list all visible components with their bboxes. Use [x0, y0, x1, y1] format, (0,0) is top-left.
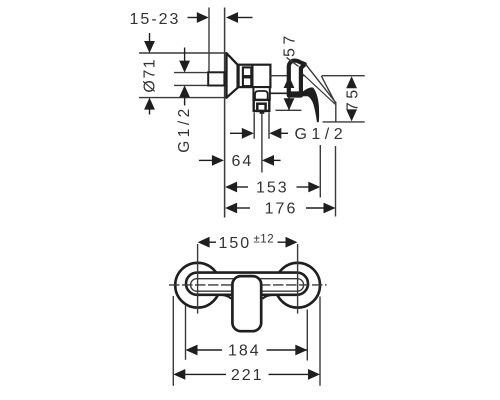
inlet pipe square — [208, 72, 224, 85]
dimension 153 — [225, 182, 237, 193]
extension line: handle grip end (153) — [319, 145, 321, 198]
lever bar and grip (solid) — [288, 87, 320, 122]
upper port square — [243, 67, 251, 76]
svg-text:±12: ±12 — [254, 234, 275, 246]
lower port square — [243, 77, 251, 86]
svg-text:15-23: 15-23 — [130, 11, 181, 28]
horizontal centerline — [169, 284, 327, 286]
extension line: outlet centerline — [261, 114, 263, 173]
escutcheon bell — [227, 53, 238, 97]
svg-text:221: 221 — [231, 367, 264, 384]
extension line: outlet left edge — [253, 112, 255, 139]
right fillet — [263, 295, 275, 299]
extension line: lever tip (176) — [335, 146, 337, 217]
inner capsule detail — [191, 279, 304, 292]
valve body internal divider — [251, 65, 253, 87]
wall line / rear reference — [224, 8, 226, 218]
dimension D71 lower arrow — [144, 98, 155, 110]
dimension 57 shaft and arrows — [288, 76, 290, 110]
extension line: bottom of escutcheon (diameter 71) — [139, 97, 227, 99]
body bar — [186, 273, 308, 295]
lever head outline — [289, 61, 305, 96]
thin silhouette line upper of lever — [305, 64, 336, 104]
svg-text:G1/2: G1/2 — [176, 105, 193, 153]
dimension D71 upper arrow — [149, 33, 151, 42]
leader line for 57 — [287, 58, 299, 67]
dimension outlet G1/2 left arrow — [230, 132, 243, 134]
valve body block — [239, 65, 271, 87]
outlet dome — [255, 91, 268, 100]
svg-text:176: 176 — [265, 201, 298, 218]
handle grip front — [232, 276, 261, 331]
dimension 15-23 right arrow — [226, 12, 238, 23]
svg-text:G1/2: G1/2 — [294, 126, 347, 143]
left circle centerline vertical — [197, 244, 199, 314]
svg-text:75: 75 — [344, 86, 361, 111]
svg-text:64: 64 — [232, 153, 254, 170]
right circle centerline vertical — [297, 244, 299, 314]
dimension 150 line left — [198, 237, 210, 248]
outlet stub — [260, 111, 265, 114]
left fillet — [220, 295, 232, 299]
dimension 150 line right — [278, 241, 287, 243]
dimension outlet G1/2 right arrow — [269, 128, 281, 139]
lever tip vertical tick — [335, 104, 337, 122]
dimension 64 left arrow — [199, 159, 213, 161]
svg-text:Ø71: Ø71 — [141, 58, 158, 93]
thin line: top of handle plane (57/75 upper reference) — [270, 75, 305, 77]
dimension 64 right arrow — [262, 155, 274, 166]
dimension 176 — [225, 203, 237, 214]
dimension 221 — [173, 369, 185, 380]
dimension inlet G1/2 line with arrows — [184, 48, 186, 63]
leader from 75 line to lever tip — [321, 76, 335, 104]
right escutcheon circle — [275, 263, 320, 308]
svg-text:150: 150 — [218, 235, 251, 252]
extension line: bar right end (184) — [306, 310, 308, 361]
extension line: outlet right edge — [268, 112, 270, 139]
extension line: bar left end (184) — [185, 306, 187, 360]
outlet nut — [254, 100, 270, 111]
svg-text:153: 153 — [256, 180, 289, 197]
svg-text:57: 57 — [281, 32, 298, 57]
thin line: 57 lower reference — [276, 109, 302, 111]
extension line: fixture right edge (221) — [319, 297, 321, 386]
left escutcheon circle — [175, 263, 220, 308]
outlet thread square — [257, 104, 265, 111]
connector line body to lever — [270, 92, 288, 94]
extension line: bottom of inlet thread G1/2 — [174, 84, 209, 86]
thin silhouette line lower of lever — [303, 74, 336, 105]
extension line: fixture left edge (221) — [172, 296, 174, 386]
svg-text:184: 184 — [228, 343, 261, 360]
dimension 75 arrows — [346, 76, 357, 88]
thin line: 75 lower reference — [323, 121, 365, 123]
outlet transition piece — [253, 87, 269, 100]
dimension 184 — [186, 345, 198, 356]
dimension 15-23 left arrow — [188, 17, 199, 19]
extension line: front of escutcheon (15-23 left) — [208, 8, 210, 73]
extension line: top of inlet thread G1/2 — [174, 72, 209, 74]
extension line: top of escutcheon (diameter 71) — [139, 52, 227, 54]
